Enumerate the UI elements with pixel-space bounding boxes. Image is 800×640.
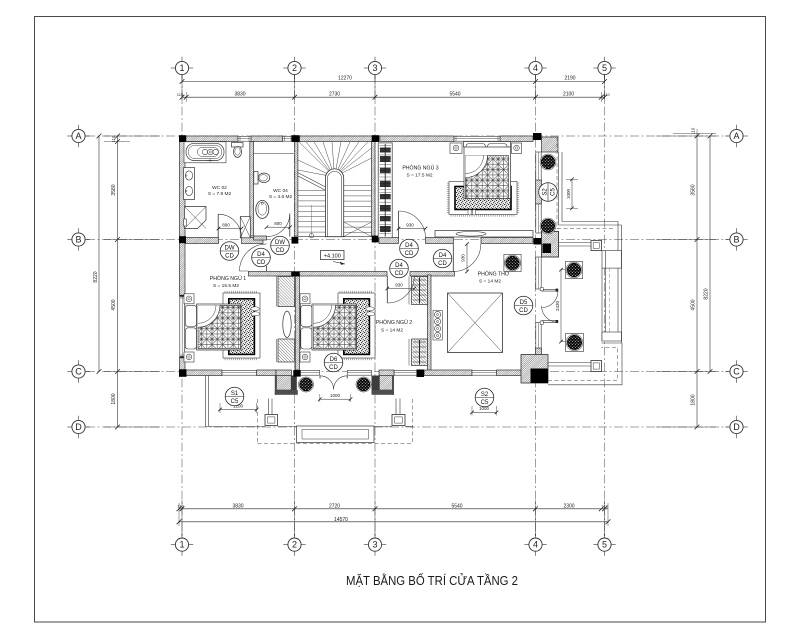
- svg-text:S = 4.6 M2: S = 4.6 M2: [269, 194, 293, 200]
- svg-text:800: 800: [274, 221, 282, 226]
- svg-text:3: 3: [372, 540, 377, 550]
- svg-text:1000: 1000: [330, 393, 341, 398]
- svg-text:PHÒNG THỜ: PHÒNG THỜ: [478, 271, 510, 278]
- svg-text:CD: CD: [257, 260, 266, 266]
- svg-text:B: B: [733, 235, 739, 245]
- svg-text:4: 4: [533, 540, 538, 550]
- svg-text:1800: 1800: [111, 393, 117, 404]
- svg-text:S = 14 M2: S = 14 M2: [381, 328, 403, 334]
- svg-text:C: C: [733, 367, 740, 377]
- svg-text:CD: CD: [438, 261, 447, 267]
- svg-text:CD: CD: [329, 365, 338, 371]
- svg-text:D4: D4: [395, 263, 403, 269]
- svg-text:B: B: [75, 235, 81, 245]
- svg-text:5540: 5540: [449, 92, 460, 98]
- svg-text:4500: 4500: [691, 299, 697, 310]
- svg-text:1: 1: [179, 540, 184, 550]
- svg-text:CD: CD: [519, 308, 528, 314]
- svg-text:CD: CD: [405, 251, 414, 257]
- svg-text:C5: C5: [481, 400, 489, 406]
- svg-text:S1: S1: [231, 391, 239, 397]
- svg-text:C: C: [75, 367, 82, 377]
- svg-text:WC 04: WC 04: [273, 188, 288, 194]
- svg-text:CD: CD: [395, 271, 404, 277]
- svg-text:2100: 2100: [563, 92, 574, 98]
- svg-text:DW: DW: [225, 245, 235, 251]
- svg-text:1: 1: [179, 63, 184, 73]
- svg-text:A: A: [733, 131, 739, 141]
- svg-text:D4: D4: [439, 253, 447, 259]
- svg-text:A: A: [75, 131, 81, 141]
- svg-text:8220: 8220: [704, 288, 710, 299]
- svg-text:D5: D5: [520, 300, 528, 306]
- svg-text:4500: 4500: [111, 299, 117, 310]
- svg-text:8220: 8220: [93, 271, 99, 282]
- svg-text:CD: CD: [276, 248, 285, 254]
- svg-text:PHÒNG NGỦ 3: PHÒNG NGỦ 3: [402, 165, 438, 172]
- svg-text:MẶT BẰNG BỐ TRÍ CỬA TẦNG 2: MẶT BẰNG BỐ TRÍ CỬA TẦNG 2: [346, 573, 518, 588]
- svg-text:S2: S2: [542, 188, 548, 196]
- svg-text:D: D: [733, 422, 740, 432]
- svg-text:3580: 3580: [691, 184, 697, 195]
- svg-text:D4: D4: [405, 243, 413, 249]
- svg-text:DW: DW: [275, 240, 285, 246]
- svg-text:110: 110: [177, 504, 184, 509]
- svg-text:2720: 2720: [329, 504, 340, 510]
- svg-text:PHÒNG NGỦ 1: PHÒNG NGỦ 1: [210, 275, 246, 282]
- svg-text:2730: 2730: [329, 92, 340, 98]
- svg-text:14570: 14570: [334, 517, 348, 523]
- svg-text:C5: C5: [550, 188, 556, 196]
- svg-text:3: 3: [372, 63, 377, 73]
- svg-text:3830: 3830: [234, 92, 245, 98]
- svg-text:D: D: [75, 422, 82, 432]
- svg-text:3830: 3830: [232, 504, 243, 510]
- svg-text:S = 14 M2: S = 14 M2: [479, 279, 501, 285]
- svg-text:D4: D4: [257, 252, 265, 258]
- svg-text:S = 15.5 M2: S = 15.5 M2: [213, 283, 239, 289]
- svg-text:PHÒNG NGỦ 2: PHÒNG NGỦ 2: [376, 319, 412, 326]
- svg-text:1000: 1000: [566, 188, 571, 199]
- svg-text:5540: 5540: [451, 504, 462, 510]
- svg-text:930: 930: [406, 222, 414, 227]
- svg-text:800: 800: [222, 223, 230, 228]
- svg-text:5: 5: [602, 540, 607, 550]
- svg-text:S2: S2: [481, 392, 489, 398]
- svg-text:S = 7.9 M2: S = 7.9 M2: [208, 191, 232, 197]
- svg-text:5: 5: [602, 63, 607, 73]
- svg-text:12270: 12270: [338, 76, 352, 82]
- svg-text:2190: 2190: [564, 76, 575, 82]
- svg-text:CD: CD: [225, 253, 234, 259]
- svg-text:2: 2: [292, 63, 297, 73]
- svg-text:C5: C5: [231, 399, 239, 405]
- svg-text:2430: 2430: [555, 300, 560, 311]
- svg-text:930: 930: [461, 254, 466, 262]
- svg-text:S = 17.5 M2: S = 17.5 M2: [407, 173, 433, 179]
- svg-text:WC 02: WC 02: [212, 185, 227, 191]
- svg-text:4: 4: [533, 63, 538, 73]
- svg-text:D6: D6: [330, 357, 338, 363]
- svg-text:3580: 3580: [111, 184, 117, 195]
- svg-text:1800: 1800: [691, 394, 697, 405]
- svg-text:+4.100: +4.100: [324, 253, 341, 259]
- svg-text:2: 2: [292, 540, 297, 550]
- svg-text:930: 930: [395, 282, 403, 287]
- svg-text:115: 115: [177, 92, 184, 97]
- svg-text:2300: 2300: [563, 504, 574, 510]
